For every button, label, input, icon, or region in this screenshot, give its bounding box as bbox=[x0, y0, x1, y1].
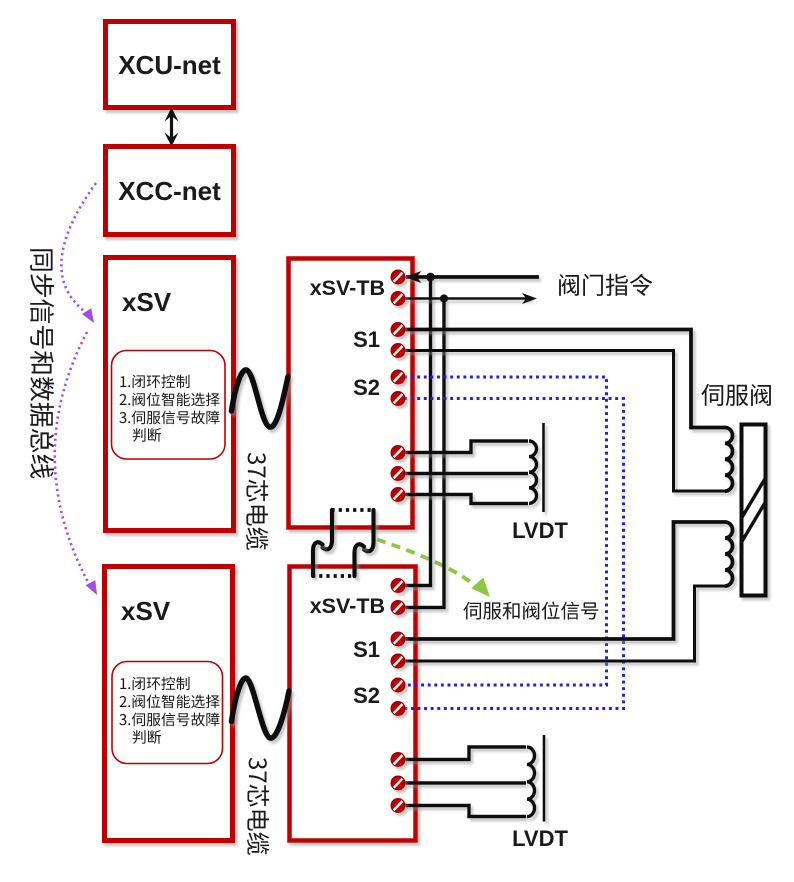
terminal TB1 lvdt c bbox=[391, 488, 405, 502]
label 伺服和阀位信号 bbox=[463, 602, 598, 620]
box XCC-net bbox=[106, 147, 234, 235]
LVDT upper wire 3 bbox=[404, 495, 528, 504]
label 阀门指令 bbox=[559, 274, 652, 296]
svg-text:LVDT: LVDT bbox=[512, 826, 568, 851]
svg-text:S2: S2 bbox=[353, 375, 380, 400]
terminal TB2 lvdt c bbox=[391, 799, 405, 813]
wire S1a upper to servo coil top bbox=[404, 330, 725, 428]
rounded list box upper xSV bbox=[112, 351, 226, 460]
list line 4 upper bbox=[133, 428, 161, 442]
box xSV upper bbox=[106, 258, 234, 531]
rounded list box lower xSV bbox=[112, 662, 223, 764]
svg-text:xSV: xSV bbox=[121, 596, 171, 626]
terminal TB1 cmd b bbox=[391, 292, 405, 306]
list line 3 lower bbox=[119, 713, 219, 727]
terminal TB1 S1 a bbox=[391, 323, 405, 337]
box xSV-TB lower bbox=[290, 567, 416, 841]
terminal TB2 cmd a bbox=[391, 579, 405, 593]
svg-text:XCU-net: XCU-net bbox=[118, 50, 221, 80]
svg-text:XCC-net: XCC-net bbox=[118, 176, 221, 206]
cable connector dotted end lower bbox=[312, 574, 356, 578]
wire junction2 down to lower TB terminal bbox=[404, 299, 444, 608]
svg-text:LVDT: LVDT bbox=[512, 518, 568, 543]
cable connector left upper hook bbox=[323, 510, 333, 549]
box xSV lower bbox=[105, 567, 233, 841]
terminal TB2 S2 b bbox=[391, 702, 405, 716]
cable 37-core lower (wavy) bbox=[232, 678, 290, 738]
LVDT upper wire 1 bbox=[404, 441, 528, 453]
terminal TB1 S1 b bbox=[391, 344, 405, 358]
servo valve slash 2 bbox=[741, 501, 766, 543]
LVDT upper core bbox=[542, 423, 545, 512]
LVDT lower wire 3 bbox=[404, 806, 526, 817]
terminal TB1 S2 b bbox=[391, 392, 405, 406]
terminal TB1 lvdt a bbox=[391, 446, 405, 460]
terminal TB2 S1 a bbox=[391, 632, 405, 646]
servo valve body bbox=[742, 425, 766, 596]
terminal TB2 lvdt a bbox=[391, 753, 405, 767]
list line 4 lower bbox=[133, 730, 161, 744]
servo coil bottom bbox=[725, 522, 733, 586]
cable connector left lower hook bbox=[313, 542, 323, 576]
svg-text:xSV-TB: xSV-TB bbox=[310, 594, 385, 618]
terminal TB2 cmd b bbox=[391, 601, 405, 615]
bidirectional arrow XCU-XCC bbox=[170, 113, 173, 141]
svg-text:S2: S2 bbox=[353, 683, 380, 708]
terminal TB1 S2 a bbox=[391, 370, 405, 384]
list line 3 upper bbox=[119, 411, 219, 425]
terminal TB2 S1 b bbox=[391, 654, 405, 668]
blue dotted wire S2a upper-lower bbox=[404, 377, 607, 685]
cable 37-core upper (wavy) bbox=[232, 370, 289, 427]
junction dot 1 bbox=[426, 273, 435, 282]
svg-text:xSV-TB: xSV-TB bbox=[310, 276, 385, 300]
label 37芯电缆 upper bbox=[246, 453, 268, 550]
cable connector right lower hook bbox=[355, 544, 365, 576]
box xSV-TB upper bbox=[289, 259, 413, 528]
terminal TB1 lvdt b bbox=[391, 467, 405, 481]
box XCU-net bbox=[106, 22, 234, 108]
list line 1 upper bbox=[120, 375, 189, 389]
cable connector right upper hook bbox=[364, 510, 374, 551]
LVDT lower coil bbox=[527, 747, 535, 817]
list line 2 upper bbox=[120, 393, 220, 407]
svg-text:S1: S1 bbox=[353, 327, 380, 352]
wire S1b lower to servo coil bottom bbox=[404, 586, 725, 661]
wire valve command 1 (into terminal) bbox=[406, 275, 539, 279]
LVDT lower wire 1 bbox=[404, 747, 526, 760]
servo valve slash 1 bbox=[741, 477, 766, 519]
servo coil top bbox=[725, 428, 733, 492]
wire valve command 2 (out of terminal) bbox=[404, 297, 531, 299]
wire junction1 down to lower TB terminal bbox=[404, 277, 431, 586]
LVDT upper coil bbox=[529, 441, 537, 503]
LVDT lower wire 2 bbox=[404, 781, 526, 784]
wire S1a lower to servo coil bottom bbox=[404, 522, 725, 639]
label 伺服阀 bbox=[701, 384, 771, 406]
terminal TB1 cmd a bbox=[391, 270, 405, 284]
LVDT upper wire 2 bbox=[404, 472, 528, 475]
terminal TB2 S2 a bbox=[391, 678, 405, 692]
cable connector dotted end upper bbox=[332, 508, 376, 512]
wire S1b upper to servo coil top bbox=[404, 351, 725, 492]
LVDT lower core bbox=[543, 735, 546, 822]
svg-text:xSV: xSV bbox=[122, 287, 172, 317]
svg-text:S1: S1 bbox=[353, 637, 380, 662]
list line 1 lower bbox=[120, 677, 189, 691]
list line 2 lower bbox=[120, 695, 220, 709]
blue dotted wire S2b upper-lower bbox=[404, 399, 624, 709]
purple dotted arc upper (sync bus) bbox=[61, 183, 96, 314]
vertical label 同步信号和数据总线 bbox=[30, 249, 54, 478]
terminal TB2 lvdt b bbox=[391, 776, 405, 790]
junction dot 2 bbox=[440, 294, 448, 302]
purple dotted arc lower (sync bus) bbox=[55, 332, 89, 584]
green dashed arrow servo/position signals bbox=[377, 540, 472, 584]
label 37芯电缆 lower bbox=[247, 758, 269, 855]
